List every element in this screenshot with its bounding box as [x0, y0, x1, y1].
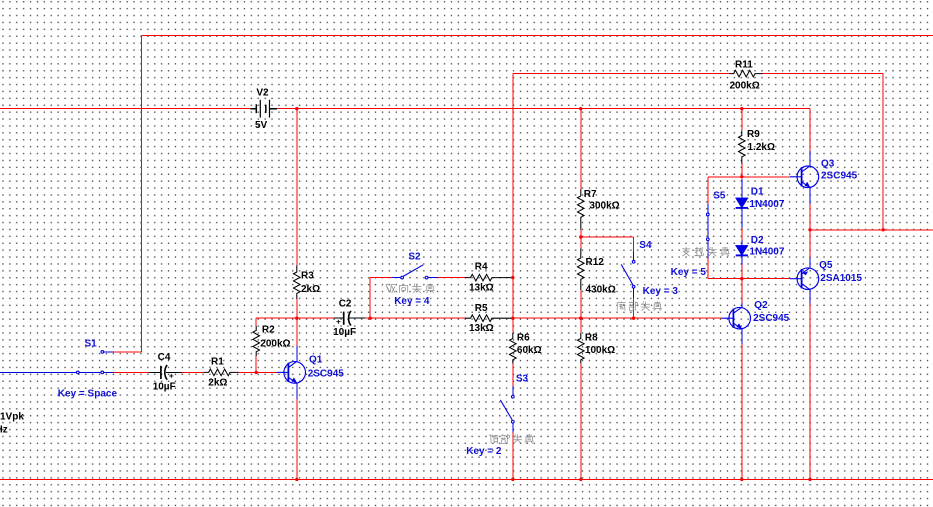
svg-text:200kΩ: 200kΩ: [260, 339, 290, 350]
svg-text:R6: R6: [517, 333, 530, 344]
wire Q2 emitter drop: [741, 344, 743, 480]
transistor Q1: [277, 346, 306, 399]
resistor R2: [253, 326, 260, 356]
wire R5 to Q2 base: [511, 317, 722, 319]
svg-text:Key = 2: Key = 2: [466, 446, 502, 457]
svg-text:S5: S5: [713, 191, 726, 202]
svg-text:V2: V2: [256, 87, 269, 98]
wire S1 to C4: [114, 371, 149, 373]
wire node column mid: [512, 278, 514, 333]
wire battery rail right: [277, 108, 810, 110]
wire R3 top feed: [296, 109, 298, 266]
svg-text:R8: R8: [585, 333, 598, 344]
svg-text:R9: R9: [747, 129, 760, 140]
resistor R6: [509, 333, 516, 364]
wire S5 to Q5 base corner: [707, 259, 709, 279]
svg-text:D1: D1: [751, 186, 764, 197]
wire C4 to R1: [182, 371, 203, 373]
svg-text:S1: S1: [85, 338, 98, 349]
svg-text:D2: D2: [751, 235, 764, 246]
svg-text:R5: R5: [475, 303, 488, 314]
wire R3 to Q1 collector: [296, 299, 298, 346]
wire R4 to node: [511, 277, 513, 279]
junction rail-S3: [511, 478, 514, 481]
wire Q5 base wire: [708, 278, 790, 280]
wire D1 anode lead: [741, 179, 743, 198]
junction R11-output: [882, 228, 885, 231]
svg-text:Key = 4: Key = 4: [394, 296, 430, 307]
junction Q3 base node: [740, 175, 743, 178]
junction rail-R7: [579, 107, 582, 110]
junction R12-R8 node: [579, 317, 582, 320]
junction rail-Q2e: [740, 478, 743, 481]
svg-text:300kΩ: 300kΩ: [589, 200, 619, 211]
junction C2-S2 node: [369, 317, 372, 320]
resistor R9: [739, 130, 746, 164]
junction collector-C2 node: [295, 317, 298, 320]
wire output wire: [810, 229, 933, 231]
svg-text:Key = 5: Key = 5: [671, 267, 707, 278]
wire C2 to R5: [365, 317, 465, 319]
wire node to S5: [707, 177, 709, 204]
wire bottom rail: [0, 478, 933, 480]
resistor R5: [465, 315, 511, 322]
wire Q3 base wire: [708, 176, 790, 178]
svg-text:S3: S3: [516, 373, 529, 384]
wire R2 bottom: [255, 356, 257, 372]
svg-text:2kΩ: 2kΩ: [208, 378, 227, 389]
wire R7 to S4: [581, 236, 634, 238]
junction rail-R8: [579, 478, 582, 481]
junction Q5 base node: [740, 277, 743, 280]
wire R6 bottom to S3: [512, 364, 514, 386]
svg-text:2SC945: 2SC945: [821, 170, 858, 181]
svg-text:430kΩ: 430kΩ: [586, 285, 616, 296]
junction R5-R6 node: [511, 317, 514, 320]
capacitor C4: [149, 365, 182, 380]
svg-text:Key = 3: Key = 3: [643, 286, 679, 297]
diode D2: [736, 245, 748, 255]
wire riser to S2: [370, 277, 392, 279]
transistor Q3: [790, 151, 819, 204]
transistor Q2: [722, 303, 751, 344]
label note dibu: [617, 302, 662, 311]
switch S3: [500, 386, 514, 433]
wire R11 right segment: [763, 73, 884, 75]
wire rail to R7: [580, 109, 582, 190]
svg-text:Key = Space: Key = Space: [58, 389, 118, 400]
label note jiaoyue: [682, 247, 730, 256]
svg-text:1.2kΩ: 1.2kΩ: [748, 142, 775, 153]
junction output node: [808, 228, 811, 231]
wire rail to Q3 collector: [809, 109, 811, 151]
wire D1 to D2: [741, 228, 743, 241]
wire S2 to R4: [438, 277, 465, 279]
wire top rail: [142, 34, 933, 36]
wire R7 to R12: [580, 230, 582, 249]
svg-text:2SC945: 2SC945: [753, 313, 790, 324]
wire R2 top corner: [255, 318, 257, 326]
wire R2 to C2: [256, 317, 334, 319]
wire R9 bottom: [741, 164, 743, 177]
capacitor C2: [334, 311, 365, 326]
resistor R8: [578, 333, 585, 364]
resistor R7: [578, 190, 585, 230]
resistor R4: [465, 274, 511, 281]
wire R12 to R8: [580, 290, 582, 333]
junction rail-R9: [740, 107, 743, 110]
diode D1: [736, 198, 748, 208]
wire S4 drop: [633, 237, 635, 252]
svg-text:R1: R1: [211, 357, 224, 368]
svg-text:Q5: Q5: [819, 260, 833, 271]
svg-text:R12: R12: [586, 257, 605, 268]
svg-text:13kΩ: 13kΩ: [469, 323, 494, 334]
svg-text:1Vpk: 1Vpk: [0, 412, 24, 423]
svg-text:R3: R3: [301, 271, 314, 282]
wire Q5 collector drop: [809, 303, 811, 479]
svg-text:60kΩ: 60kΩ: [517, 345, 542, 356]
switch S5: [706, 204, 709, 258]
svg-text:200kΩ: 200kΩ: [730, 81, 760, 92]
wire D1 cathode lead: [741, 208, 743, 228]
svg-text:Q3: Q3: [821, 158, 835, 169]
resistor R12: [578, 249, 585, 291]
wire R8 to bottom rail: [580, 364, 582, 480]
wire R11 left segment: [513, 73, 729, 75]
wire D2 cathode to node: [741, 265, 743, 279]
label note shuangxiang: [386, 284, 435, 293]
svg-text:2SC945: 2SC945: [308, 369, 345, 380]
switch S1: [76, 351, 114, 374]
transistor Q5: [790, 257, 819, 303]
resistor R11: [729, 70, 763, 77]
svg-text:R4: R4: [475, 262, 488, 273]
wire D2 cathode lead: [741, 255, 743, 264]
wire S1 throw to left vertical: [114, 351, 142, 353]
junction R4 node: [511, 276, 514, 279]
svg-text:Q1: Q1: [309, 355, 323, 366]
svg-text:C2: C2: [339, 299, 352, 310]
wire D2 anode lead: [741, 240, 743, 246]
wire Q3 emitter to output: [809, 204, 811, 257]
wire R9 top: [741, 109, 743, 131]
junction R2-base node: [255, 371, 258, 374]
svg-text:R11: R11: [735, 60, 753, 71]
svg-text:R7: R7: [584, 189, 597, 200]
wire left vertical: [141, 35, 143, 352]
label note dingbu: [489, 434, 534, 443]
svg-text:100kΩ: 100kΩ: [585, 345, 615, 356]
resistor R3: [294, 266, 301, 300]
svg-text:1N4007: 1N4007: [749, 246, 784, 257]
svg-text:1N4007: 1N4007: [749, 199, 784, 210]
wire R11 left drop: [512, 74, 514, 278]
wire node to Q2 collector: [741, 279, 743, 306]
wire C2 junction riser: [369, 278, 371, 319]
wire R11 right drop: [882, 74, 884, 230]
svg-text:Q2: Q2: [754, 300, 768, 311]
svg-text:S2: S2: [408, 252, 421, 263]
svg-text:2kΩ: 2kΩ: [301, 284, 320, 295]
wire S3 to bottom rail: [512, 433, 514, 480]
wire battery rail left: [0, 108, 250, 110]
svg-text:13kΩ: 13kΩ: [469, 283, 494, 294]
wire Q1 emitter drop: [296, 399, 298, 480]
junction rail-Q5c: [808, 478, 811, 481]
wire source lead: [0, 371, 76, 373]
svg-text:C4: C4: [158, 352, 171, 363]
svg-text:S4: S4: [639, 240, 652, 251]
switch S2: [392, 265, 438, 279]
svg-text:10µF: 10µF: [333, 327, 356, 338]
wire S4 to base wire: [633, 298, 635, 318]
svg-text:10µF: 10µF: [153, 381, 176, 392]
wire R1 to Q1 base: [239, 371, 277, 373]
svg-text:5V: 5V: [255, 120, 268, 131]
battery V2: [250, 100, 277, 118]
svg-text:Hz: Hz: [0, 425, 8, 436]
svg-text:2SA1015: 2SA1015: [820, 273, 862, 284]
junction R7-S4: [579, 235, 582, 238]
svg-text:R2: R2: [262, 325, 275, 336]
junction S4-base node: [632, 317, 635, 320]
junction rail-Q1e: [295, 478, 298, 481]
switch S4: [621, 252, 635, 299]
resistor R1: [203, 369, 238, 376]
junction battery-R3: [295, 107, 298, 110]
